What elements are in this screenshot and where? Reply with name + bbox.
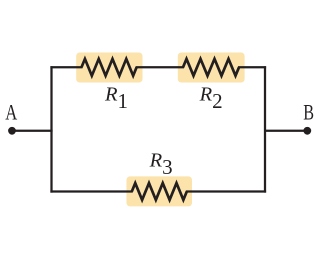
node A [8,127,16,135]
svg-text:R2: R2 [199,84,223,114]
svg-text:A: A [5,100,18,125]
wire: node B stub [265,130,307,132]
wire: top horizontal, between R1 and R2 [136,66,184,68]
svg-text:B: B [303,100,314,125]
svg-text:R1: R1 [104,84,128,114]
resistor R1 [76,53,142,83]
svg-text:R3: R3 [149,150,173,180]
wire: right vertical [264,66,266,192]
wire: top horizontal, right of R2 [238,66,266,68]
node B [303,127,311,135]
wire: top horizontal, left of R1 [50,66,82,68]
wire: left vertical [50,66,52,192]
wire: bottom horizontal, left of R3 [50,190,132,192]
resistor R2 [178,53,245,83]
resistor R3 [127,176,193,206]
wire: bottom horizontal, right of R3 [186,190,266,192]
wire: node A stub [12,130,53,132]
